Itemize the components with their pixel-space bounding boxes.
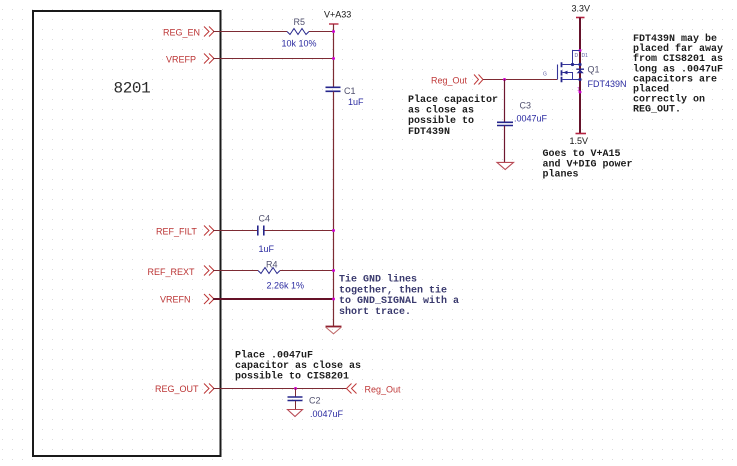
note FDT439N may be placed far away (633, 33, 723, 116)
svg-text:.0047uF: .0047uF (514, 114, 548, 124)
svg-text:D1: D1 (582, 53, 589, 59)
svg-text:Place capacitor: Place capacitor (408, 94, 498, 106)
port chevron VREFN (204, 294, 214, 304)
svg-text:capacitor as close as: capacitor as close as (235, 360, 361, 372)
wire REG_EN to R5 (213, 31, 287, 33)
svg-text:VREFN: VREFN (160, 295, 191, 305)
svg-text:8201: 8201 (114, 80, 151, 98)
power symbol 1.5V (576, 133, 587, 135)
note Tie GND lines (339, 274, 459, 318)
svg-text:and V+DIG power: and V+DIG power (543, 158, 633, 170)
note Place .0047uF capacitor (235, 350, 361, 383)
wire C2 to ground (295, 401, 297, 410)
wire Reg_Out down to C3 (504, 80, 506, 123)
svg-text:R5: R5 (294, 17, 306, 27)
note Place capacitor as close as possible to FDT439N (408, 94, 498, 138)
wire V+A33 bus upper segment (333, 24, 335, 87)
wire VREFN to bus (213, 298, 334, 300)
wire REG_OUT to off-page Reg_Out (213, 388, 347, 390)
ground GND below C2 (288, 410, 303, 417)
svg-text:possible to CIS8201: possible to CIS8201 (235, 371, 349, 383)
capacitor C1 (326, 87, 341, 91)
svg-text:to GND_SIGNAL with a: to GND_SIGNAL with a (339, 295, 459, 307)
svg-text:Q1: Q1 (588, 65, 600, 75)
note Goes to V+A15 and V+DIG power planes (543, 149, 633, 181)
svg-text:1uF: 1uF (348, 97, 364, 107)
svg-text:REG_EN: REG_EN (163, 28, 200, 38)
svg-text:C2: C2 (309, 396, 321, 406)
svg-text:REF_REXT: REF_REXT (148, 267, 196, 277)
junction VREFN/bus (332, 298, 335, 301)
svg-text:C4: C4 (259, 214, 271, 224)
svg-text:D: D (575, 53, 579, 59)
svg-text:1.5V: 1.5V (570, 136, 589, 146)
ground GND bus bottom (326, 327, 342, 334)
wire Reg_Out to gate of Q1 (483, 79, 557, 81)
svg-text:3.3V: 3.3V (572, 4, 591, 14)
svg-text:Place .0047uF: Place .0047uF (235, 350, 313, 362)
svg-text:FDT439N: FDT439N (588, 79, 627, 89)
svg-text:V+A33: V+A33 (324, 10, 351, 20)
junction VREFP/bus (332, 57, 335, 60)
junction REF_FILT/bus (332, 229, 335, 232)
svg-text:G: G (543, 72, 547, 78)
capacitor C3 (497, 122, 513, 125)
wire VREFP to bus (213, 58, 334, 60)
svg-text:Tie GND lines: Tie GND lines (339, 274, 417, 286)
wire 3.3V down to Q1 drain junction (579, 18, 581, 134)
off-page chevron Reg_Out bottom (347, 384, 357, 394)
svg-text:10k 10%: 10k 10% (282, 39, 317, 49)
ground GND below C3 (497, 162, 514, 169)
off-page chevron Reg_Out top (474, 75, 483, 85)
wire C4 to bus (265, 230, 334, 232)
IC U? CIS8201 body (33, 11, 221, 456)
junction source net (579, 91, 582, 94)
svg-text:VREFP: VREFP (166, 55, 196, 65)
capacitor C2 (288, 397, 303, 401)
port chevron REG_OUT (204, 384, 214, 394)
svg-text:REG_OUT: REG_OUT (155, 384, 199, 394)
port chevron REG_EN (204, 27, 214, 37)
resistor R4 (258, 268, 280, 274)
junction REG_EN/bus (332, 30, 335, 33)
power symbol V+A33 (329, 23, 339, 25)
wire drain stub bend (573, 51, 581, 65)
svg-text:C3: C3 (520, 101, 532, 111)
svg-text:together, then tie: together, then tie (339, 284, 447, 296)
resistor R5 (287, 29, 309, 35)
wire C3 to ground (504, 126, 506, 162)
wire R4 to bus (280, 270, 334, 272)
wire REG_OUT down to C2 (295, 389, 297, 397)
wire R5 to V+A33 bus (309, 31, 334, 33)
wire REF_REXT to R4 (213, 270, 258, 272)
svg-text:possible to: possible to (408, 115, 474, 127)
svg-text:Reg_Out: Reg_Out (365, 385, 402, 395)
svg-text:as close as: as close as (408, 105, 474, 117)
power symbol 3.3V (576, 17, 585, 19)
svg-text:.0047uF: .0047uF (310, 409, 344, 419)
wire REF_FILT to C4 (213, 230, 257, 232)
svg-text:C1: C1 (344, 86, 356, 96)
junction REF_REXT/bus (332, 269, 335, 272)
svg-text:2.26k 1%: 2.26k 1% (267, 281, 305, 291)
svg-text:REG_OUT.: REG_OUT. (633, 105, 681, 116)
svg-text:FDT439N: FDT439N (408, 127, 450, 138)
svg-text:1: 1 (577, 87, 580, 93)
svg-text:1uF: 1uF (259, 244, 275, 254)
wire bus C1 to ground (333, 92, 335, 327)
capacitor C4 (258, 226, 264, 236)
svg-text:Reg_Out: Reg_Out (431, 76, 468, 86)
svg-text:R4: R4 (266, 260, 278, 270)
port chevron REF_REXT (204, 266, 214, 276)
svg-text:planes: planes (543, 169, 579, 181)
svg-text:short trace.: short trace. (339, 306, 411, 318)
junction C3 tap (503, 78, 506, 81)
transistor Q1 FDT439N (558, 62, 585, 82)
junction C2 tap (294, 387, 297, 390)
junction drain top (579, 49, 582, 52)
port chevron REF_FILT (204, 226, 214, 236)
svg-text:REF_FILT: REF_FILT (156, 227, 197, 237)
port chevron VREFP (204, 54, 214, 64)
